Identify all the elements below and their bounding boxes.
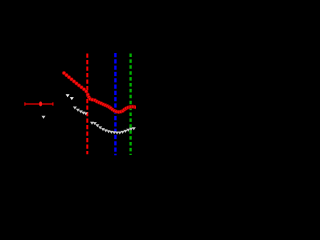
green dashed vertical line: [129, 54, 131, 156]
gray triangle light curve: [66, 94, 136, 134]
red data point with horizontal error bar: [25, 102, 54, 105]
red dashed vertical line (burst epoch marker): [86, 54, 88, 155]
isolated gray upper-limit triangle: [42, 116, 46, 119]
blue dashed vertical line: [114, 53, 116, 155]
red circle light curve: [62, 71, 138, 113]
